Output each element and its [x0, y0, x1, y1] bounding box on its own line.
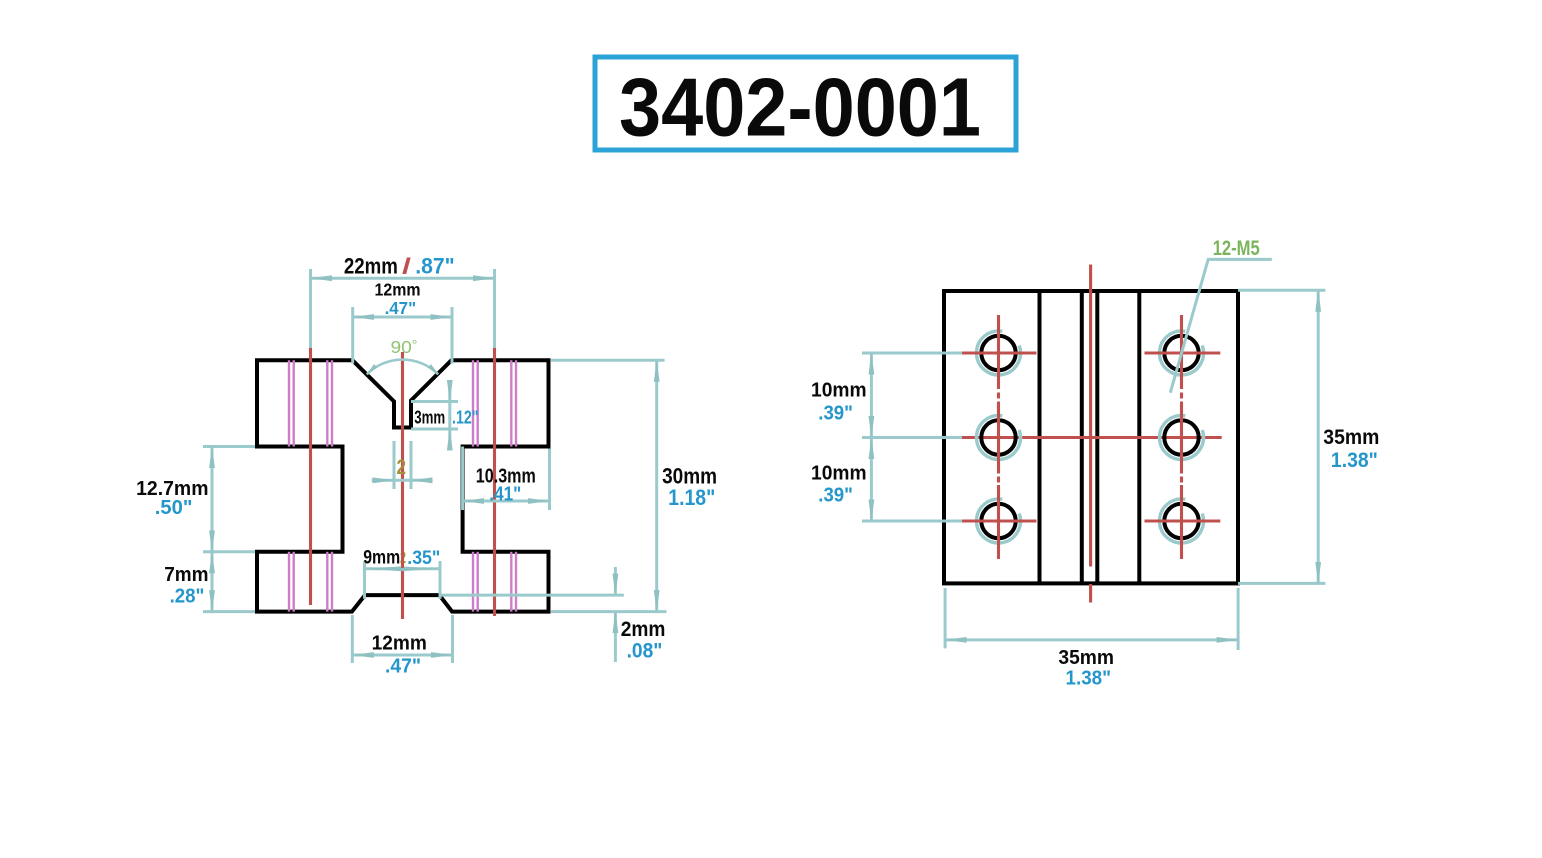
svg-text:35mm: 35mm	[1058, 647, 1114, 669]
thread lines left hole bottom band	[289, 552, 332, 612]
v-groove edge line right	[1137, 291, 1141, 583]
svg-text:12-M5: 12-M5	[1213, 237, 1260, 260]
svg-text:12mm: 12mm	[372, 633, 427, 655]
title block border	[595, 57, 1016, 150]
centerline left hole	[309, 348, 312, 605]
svg-text:.08": .08"	[627, 640, 663, 663]
dimension 3mm slot depth	[411, 381, 458, 448]
dimension 22mm hole spacing	[311, 269, 495, 348]
centerline right hole	[493, 348, 496, 616]
svg-text:.50": .50"	[155, 496, 193, 519]
dimension 35mm overall height right	[1238, 290, 1325, 583]
svg-text:.41": .41"	[489, 483, 521, 506]
vertical centerline top view	[1089, 265, 1092, 567]
svg-text:3402-0001: 3402-0001	[619, 61, 981, 154]
leader 12-M5	[1170, 259, 1272, 392]
svg-text:2: 2	[397, 456, 407, 479]
part outline front view	[257, 360, 549, 611]
dimension 2mm bottom relief depth	[440, 567, 624, 662]
horizontal centerline middle row	[961, 436, 1222, 439]
part outline top view	[944, 291, 1238, 583]
svg-text:1.38": 1.38"	[1331, 449, 1378, 472]
dimension 7mm bottom band height	[203, 552, 255, 612]
angle dimension 90 degrees	[367, 360, 438, 375]
svg-text:90°: 90°	[391, 337, 418, 357]
dimension 35mm overall width bottom	[945, 588, 1238, 650]
holes left column	[977, 331, 1021, 543]
svg-text:/: /	[402, 254, 411, 279]
svg-text:35mm: 35mm	[1323, 426, 1379, 449]
centerline middle slot	[401, 352, 404, 619]
v-groove edge line left	[1038, 291, 1042, 583]
svg-text:10mm: 10mm	[811, 379, 867, 402]
holes right column	[1160, 331, 1204, 543]
svg-text:2mm: 2mm	[621, 618, 666, 641]
svg-text:9mm: 9mm	[363, 547, 400, 568]
svg-text:.39": .39"	[818, 484, 853, 507]
svg-text:12mm: 12mm	[375, 280, 421, 300]
dimension 10.3mm notch depth	[463, 447, 550, 511]
svg-text:.12": .12"	[452, 408, 479, 428]
thread lines left hole top band	[289, 360, 332, 446]
dimension 30mm overall height	[551, 360, 667, 611]
dimension 10mm row spacing upper	[862, 353, 962, 438]
hole crosshairs red	[961, 315, 1220, 559]
svg-text:.87": .87"	[415, 254, 455, 279]
svg-text:3mm: 3mm	[414, 408, 445, 428]
dimension 2mm slot width	[372, 441, 433, 489]
svg-text:.39": .39"	[818, 402, 853, 425]
dimension 12mm bottom relief width	[352, 615, 452, 663]
svg-text:1.18": 1.18"	[668, 485, 715, 510]
slot edge line left	[1080, 291, 1084, 583]
svg-text:.35": .35"	[407, 548, 440, 569]
svg-text:10mm: 10mm	[811, 462, 867, 485]
dimension 9mm bottom relief top width	[365, 561, 441, 599]
dimension 12mm v-groove opening	[353, 307, 452, 364]
svg-text:.47": .47"	[385, 656, 421, 678]
svg-text:.28": .28"	[170, 585, 205, 608]
slot edge line right	[1095, 291, 1099, 583]
dimension 10mm row spacing lower	[862, 438, 962, 522]
thread lines right hole bottom band	[473, 552, 516, 612]
dimension 12.7mm middle band height	[203, 447, 255, 552]
svg-text:1.38": 1.38"	[1066, 668, 1112, 690]
svg-text:7mm: 7mm	[164, 563, 208, 586]
thread lines right hole top band	[473, 360, 516, 446]
svg-text:.47": .47"	[385, 298, 417, 318]
svg-text:22mm: 22mm	[344, 254, 398, 279]
